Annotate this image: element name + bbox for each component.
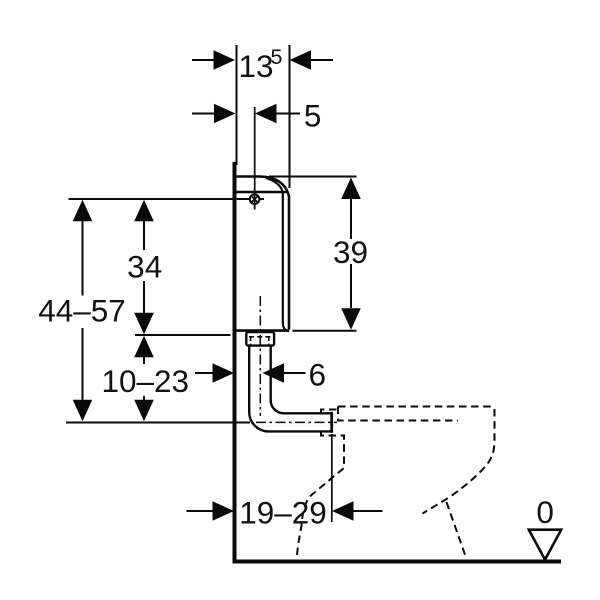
svg-text:5: 5 xyxy=(271,45,283,69)
svg-text:10–23: 10–23 xyxy=(101,363,189,399)
svg-text:5: 5 xyxy=(304,98,322,134)
svg-text:19–29: 19–29 xyxy=(239,495,327,531)
svg-text:34: 34 xyxy=(127,249,162,285)
svg-text:44–57: 44–57 xyxy=(38,293,126,329)
svg-text:13: 13 xyxy=(238,48,273,84)
svg-text:0: 0 xyxy=(536,494,554,530)
svg-text:6: 6 xyxy=(309,357,327,393)
